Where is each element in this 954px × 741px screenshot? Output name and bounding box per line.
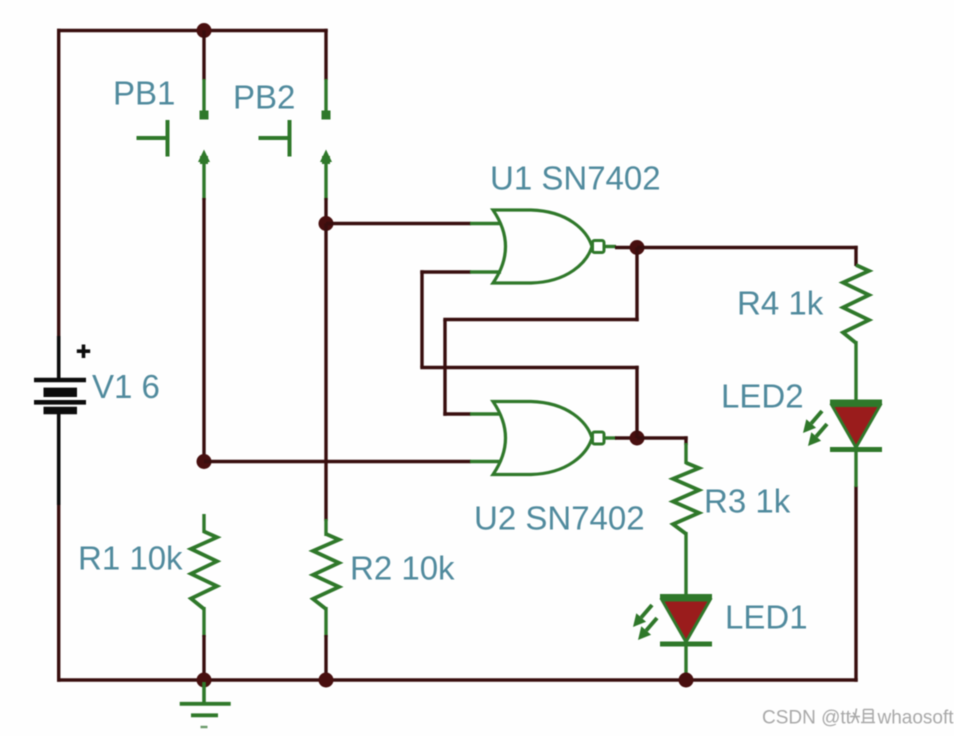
wire cross-couple Qbar up to U1 bottom input xyxy=(420,270,423,367)
svg-text:V1 6: V1 6 xyxy=(92,368,160,405)
wire bottom rail xyxy=(57,678,858,681)
node junction dot bottom rail / R2 xyxy=(319,673,334,688)
wire PB2 lower lead to node S xyxy=(324,198,327,225)
resistor R4 xyxy=(843,265,869,343)
wire PB1 lower lead down to node R1 xyxy=(202,198,205,463)
svg-text:LED1: LED1 xyxy=(725,599,808,636)
resistor R1 xyxy=(202,514,205,533)
svg-text:whaosoft: whaosoft xyxy=(877,708,954,729)
battery V1 top lead xyxy=(57,336,61,378)
switch PB1 upper pin xyxy=(202,79,205,111)
wire LED2 cathode lead xyxy=(854,450,857,488)
wire PB2 upper lead xyxy=(324,29,327,80)
wire left rail vertical upper xyxy=(57,29,60,342)
resistor R3 xyxy=(673,463,699,534)
wire U1 output stub xyxy=(603,245,616,248)
wire node S down to R2 xyxy=(324,224,327,522)
wire top rail left segment xyxy=(57,29,206,32)
node junction dot Q (U1 out) xyxy=(630,240,645,255)
wire cross-couple Q down to U2 top input xyxy=(443,320,446,416)
wire U1 top input stub xyxy=(470,222,501,225)
wire cross-couple Q horizontal xyxy=(443,318,638,321)
svg-text:PB1: PB1 xyxy=(113,75,175,112)
wire U1 bottom input stub xyxy=(470,270,501,273)
wire node S to U1 top input xyxy=(326,222,471,225)
LED2 emission arrows xyxy=(811,411,822,424)
node junction dot R (PB1 / U2 input / R1) xyxy=(197,454,212,469)
battery V1 positive plus sign xyxy=(77,345,90,359)
svg-text:R4 1k: R4 1k xyxy=(737,285,824,322)
wire left rail vertical lower xyxy=(57,490,60,682)
wire cross-couple Q down xyxy=(635,248,638,322)
wire LED1 cathode lead xyxy=(684,644,687,680)
LED D1 xyxy=(660,594,712,599)
op-amp U2 NOR gate body xyxy=(493,402,592,475)
switch PB2 upper pin xyxy=(324,79,327,111)
wire R3 to LED1 xyxy=(684,532,687,596)
node junction dot top rail / PB1 xyxy=(197,23,212,38)
wire U2 output stub xyxy=(603,436,616,439)
battery V1 bottom lead xyxy=(57,413,61,505)
wire U1 output to node Q xyxy=(615,246,638,249)
wire PB1 upper lead xyxy=(202,31,205,81)
wire R3 upper lead xyxy=(684,436,687,445)
svg-text:CSDN @tt: CSDN @tt xyxy=(762,708,852,729)
LED1 emission arrows xyxy=(641,605,652,618)
wire U2 output to node Qbar xyxy=(615,436,638,439)
wire R4 to LED2 xyxy=(854,341,857,402)
wire R4 upper lead xyxy=(854,246,857,266)
node junction dot S (PB2 / U1 input / R2) xyxy=(319,216,334,231)
wire cross-couple Qbar horizontal xyxy=(420,366,638,369)
svg-text:U2 SN7402: U2 SN7402 xyxy=(474,500,645,537)
battery V1 plates xyxy=(34,378,86,383)
wire into U1 bottom input xyxy=(420,270,471,273)
wire into U2 top input xyxy=(443,412,471,415)
node junction dot bottom rail / LED1 xyxy=(679,673,694,688)
wire right rail vertical (LED2 cathode to bottom rail) xyxy=(854,486,857,682)
svg-text:R1 10k: R1 10k xyxy=(78,540,183,577)
wire top rail right segment xyxy=(204,29,328,32)
wire node Q to R4 top corner xyxy=(637,246,858,249)
wire R2 bottom lead xyxy=(324,635,327,680)
node junction dot bottom rail / R1 / ground xyxy=(197,673,212,688)
switch PB2 lower pin xyxy=(320,150,332,163)
switch PB1 actuator xyxy=(137,136,168,140)
svg-text:R2 10k: R2 10k xyxy=(350,550,455,587)
resistor R2 xyxy=(324,519,327,536)
wire R1 bottom lead xyxy=(202,635,205,680)
wire node Qbar to R3 corner xyxy=(637,436,688,439)
switch PB2 actuator xyxy=(259,136,290,140)
svg-text:U1 SN7402: U1 SN7402 xyxy=(490,160,661,197)
svg-text:PB2: PB2 xyxy=(233,79,295,116)
svg-text:R3 1k: R3 1k xyxy=(704,483,791,520)
ground symbol xyxy=(180,682,231,727)
wire U2 top input stub xyxy=(470,412,501,415)
wire U2 bottom input stub xyxy=(470,460,501,463)
svg-text:LED2: LED2 xyxy=(721,378,804,415)
LED D2 xyxy=(830,400,882,405)
switch PB1 lower pin xyxy=(198,150,210,163)
wire cross-couple Qbar up xyxy=(635,366,638,438)
node junction dot Qbar (U2 out) xyxy=(630,431,645,446)
op-amp U1 NOR gate body xyxy=(493,210,592,283)
wire node R to U2 bottom input xyxy=(204,460,471,463)
